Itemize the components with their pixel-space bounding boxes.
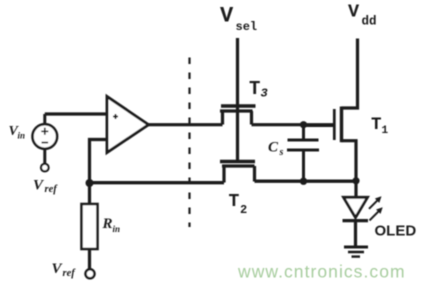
label Vref lower [52,261,77,279]
svg-text:dd: dd [362,15,377,29]
svg-text:V: V [220,4,234,29]
svg-text:3: 3 [261,87,268,101]
svg-text:T: T [371,115,382,135]
svg-text:1: 1 [382,125,389,137]
ground [344,247,368,257]
transistor T3 [220,106,256,125]
label T3 [249,78,268,101]
svg-text:C: C [268,140,279,156]
svg-text:V: V [348,1,360,22]
arrows light emission [369,196,383,220]
svg-text:T: T [229,192,240,212]
node A junction dot [86,179,94,187]
svg-text:V: V [33,177,45,193]
svg-text:sel: sel [236,20,258,34]
svg-text:in: in [113,224,121,234]
wire op-amp output to T3 left [148,123,223,126]
watermark www.cntronics.com [237,262,406,282]
node junction top of Cs [300,121,307,128]
transistor T1 [304,107,357,197]
transistor T2 [220,162,255,183]
label T2 [229,192,248,217]
node Vsel label [220,4,257,35]
wire Vdd to T1 drain [342,39,358,109]
label Vref upper [33,177,58,195]
wire Vsel vertical to T3/T2 gates [236,38,239,161]
svg-text:OLED: OLED [375,223,417,240]
node Vdd label [348,1,377,28]
node junction at T1 source / OLED [352,177,359,184]
wire minus input [90,140,108,183]
resistor Rin [82,183,98,278]
label OLED [375,223,417,240]
svg-text:in: in [18,131,26,141]
source V1 (Vin source circle) [33,114,58,171]
label Rin [102,216,121,234]
svg-text:s: s [279,147,284,158]
svg-text:www.cntronics.com: www.cntronics.com [237,262,406,282]
svg-text:2: 2 [240,203,247,217]
wire T3 right to T1 gate [252,123,334,126]
node junction bottom of Cs [300,178,307,185]
label T1 [371,115,389,137]
svg-text:T: T [249,78,260,100]
svg-text:ref: ref [45,184,59,195]
wire T2 right to T1 source rail [255,179,357,182]
wire feedback rail left (node A to T2) [90,181,225,184]
svg-text:ref: ref [63,268,77,279]
label Cs [268,140,284,159]
label Vin [9,124,26,141]
diode OLED [343,197,369,245]
op-amp U1 [107,97,149,153]
wire plus input [45,112,107,115]
dashed boundary line [188,58,190,228]
capacitor Cs [287,125,319,181]
svg-text:R: R [102,216,113,232]
